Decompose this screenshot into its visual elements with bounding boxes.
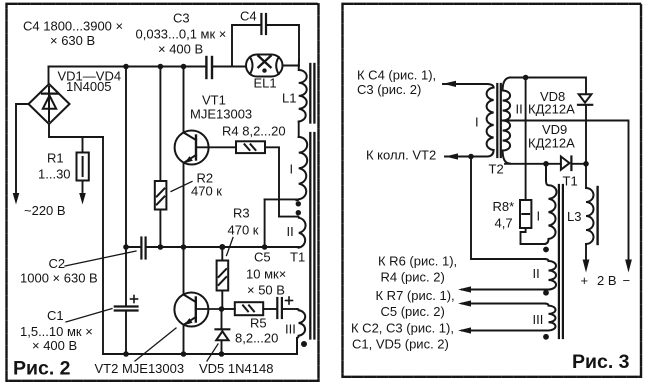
polarity dot T1 II xyxy=(543,290,549,296)
bridge rectifier VD1-VD4 xyxy=(29,84,70,124)
arrow to R7 C5 xyxy=(458,300,471,306)
svg-text:КД212А: КД212А xyxy=(528,136,575,151)
wire C4 loop right side xyxy=(267,25,299,60)
resistor R1 xyxy=(77,153,89,181)
junction dot mid bus x264 xyxy=(262,244,268,250)
svg-text:−: − xyxy=(623,273,631,288)
svg-text:К колл. VT2: К колл. VT2 xyxy=(366,148,436,163)
wire rectifier top xyxy=(510,78,586,94)
svg-text:К С2, С3 (рис. 1),: К С2, С3 (рис. 1), xyxy=(351,321,454,336)
wire top bus right segment xyxy=(213,66,246,68)
wire R2 top lead xyxy=(159,67,161,182)
resistor R4 xyxy=(236,141,265,153)
svg-text:К R7 (рис. 1),: К R7 (рис. 1), xyxy=(376,288,455,303)
svg-text:C2: C2 xyxy=(49,256,66,271)
svg-text:С3 (рис. 2): С3 (рис. 2) xyxy=(357,82,421,97)
junction dot rectifier output xyxy=(583,161,589,167)
diode VD9 xyxy=(561,157,572,171)
transformer T2 secondary upper half II xyxy=(503,78,511,121)
wire vertical bus x126 upper xyxy=(125,67,127,248)
svg-text:C1: C1 xyxy=(47,308,64,323)
wire VD5 top lead xyxy=(221,309,223,330)
svg-text:R5: R5 xyxy=(250,316,267,331)
resistor R5 xyxy=(235,302,263,315)
arrow to коллектор VT2 xyxy=(445,153,458,159)
right panel frame xyxy=(343,4,642,377)
svg-text:VT1: VT1 xyxy=(202,93,226,108)
wire R3 top lead xyxy=(221,247,223,261)
wire VD9 anode xyxy=(505,163,561,165)
svg-text:L1: L1 xyxy=(282,91,296,106)
junction dot top bus x160 xyxy=(158,64,164,70)
LEFT PANEL xyxy=(13,57,299,354)
svg-text:R8*: R8* xyxy=(493,199,515,214)
core L3 xyxy=(596,187,598,244)
wire bottom bus xyxy=(103,353,297,355)
wire R5 to C5 xyxy=(263,308,276,310)
svg-text:R4 (рис. 2): R4 (рис. 2) xyxy=(381,270,445,285)
wire bridge bottom lead xyxy=(49,124,103,137)
svg-text:Т2: Т2 xyxy=(489,162,504,177)
inductor L1 xyxy=(299,60,307,122)
polarity dot T1 I xyxy=(543,247,549,253)
svg-text:MJE13003: MJE13003 xyxy=(190,107,252,122)
transformer T2 secondary lower half xyxy=(503,121,511,164)
svg-text:4,7: 4,7 xyxy=(495,216,513,231)
wire VD5 bottom lead xyxy=(221,341,223,355)
svg-text:К C4 (рис. 1),: К C4 (рис. 1), xyxy=(357,68,436,83)
leader VT2 label xyxy=(135,328,176,361)
junction dot mid bus x126 xyxy=(123,244,129,250)
RIGHT PANEL xyxy=(443,75,632,340)
wire C2 left lead xyxy=(126,246,140,248)
capacitor C4 xyxy=(261,14,266,34)
svg-text:10 мк×: 10 мк× xyxy=(246,267,286,282)
arrow mains right xyxy=(79,193,86,205)
wire C5 to winding III xyxy=(283,308,297,310)
polarity dot winding III xyxy=(301,341,307,347)
core T1 lower segment xyxy=(310,133,314,339)
wire T2 primary bottom xyxy=(445,150,494,157)
svg-text:× 50 В: × 50 В xyxy=(247,283,285,298)
svg-text:III: III xyxy=(285,322,296,337)
wire T2 primary top xyxy=(443,84,494,88)
arrow minus output xyxy=(625,260,632,273)
wire VD8 cathode lead xyxy=(585,105,587,164)
transistor VT1 xyxy=(175,131,236,165)
core T2 xyxy=(497,84,501,157)
plus sign C5 xyxy=(286,297,293,304)
transformer T2 primary winding I xyxy=(487,88,494,151)
arrow to C4 C3 xyxy=(443,81,456,87)
svg-text:2 В: 2 В xyxy=(597,273,617,288)
wire VT1 collector lead xyxy=(183,67,185,133)
svg-text:1,5...10 мк ×: 1,5...10 мк × xyxy=(20,324,93,339)
svg-text:Т1: Т1 xyxy=(290,250,305,265)
wire C2 bus right xyxy=(147,246,299,248)
svg-text:8,2...20: 8,2...20 xyxy=(235,331,278,346)
wire R1 bottom lead xyxy=(82,181,84,193)
transformer T1 winding I right xyxy=(544,164,557,244)
svg-text:C4 1800...3900 ×: C4 1800...3900 × xyxy=(23,19,123,34)
resistor R2 xyxy=(155,181,167,210)
svg-text:R4 8,2...20: R4 8,2...20 xyxy=(222,124,286,139)
junction dot VT2 wire xyxy=(468,154,474,160)
transistor VT2 xyxy=(174,293,221,327)
svg-text:C4: C4 xyxy=(240,9,257,24)
wire bridge top lead xyxy=(48,67,50,85)
junction dot mid bus x222 xyxy=(219,244,225,250)
wire R8 drop xyxy=(525,78,527,201)
junction dot VT2 base xyxy=(219,306,225,312)
resistor R3 xyxy=(217,261,229,291)
svg-text:VD5 1N4148: VD5 1N4148 xyxy=(199,361,273,376)
wire R1 top lead xyxy=(82,137,84,153)
wire R2 bottom lead xyxy=(159,210,161,248)
svg-text:0,033...0,1 мк ×: 0,033...0,1 мк × xyxy=(136,27,227,42)
svg-text:1N4005: 1N4005 xyxy=(66,79,112,94)
junction dot bottom bus x183 xyxy=(181,351,187,357)
wire VT1 emitter lead xyxy=(183,164,185,248)
leader C2 label xyxy=(65,251,136,266)
polarity dot winding II xyxy=(296,210,301,215)
svg-text:EL1: EL1 xyxy=(254,76,277,91)
wire VD9 cathode xyxy=(572,163,586,165)
svg-text:I: I xyxy=(475,115,479,130)
svg-text:C3: C3 xyxy=(173,11,190,26)
leader C1 label xyxy=(66,309,112,323)
plus sign C1 xyxy=(131,296,138,303)
svg-text:~220 В: ~220 В xyxy=(24,203,66,218)
svg-text:II: II xyxy=(533,266,540,281)
junction dot top bus x183 xyxy=(181,64,187,70)
svg-text:L3: L3 xyxy=(567,209,581,224)
junction dot mid bus x183 xyxy=(181,244,187,250)
svg-text:1...30: 1...30 xyxy=(38,167,71,182)
wire VT2 emitter lead xyxy=(183,326,185,355)
svg-text:II: II xyxy=(287,224,294,239)
transformer T1 winding III right xyxy=(462,304,556,331)
wire winding II top feed xyxy=(471,157,545,260)
wire R4 to node xyxy=(265,147,279,216)
wire rectifier output to L3 xyxy=(585,164,587,188)
svg-text:С5 (рис. 2): С5 (рис. 2) xyxy=(381,304,445,319)
svg-text:C5: C5 xyxy=(254,250,271,265)
resistor R8 xyxy=(520,200,531,228)
svg-text:КД212А: КД212А xyxy=(528,102,575,117)
core T1 upper segment xyxy=(310,64,314,123)
junction dot bottom bus x126 xyxy=(123,351,129,357)
wire EL1 right lead xyxy=(283,65,300,67)
wire top bus left segment xyxy=(49,66,206,68)
arrow mains left xyxy=(13,193,20,205)
left panel frame xyxy=(7,4,319,381)
transformer T1 winding III xyxy=(297,309,305,354)
junction dot T1 top xyxy=(543,161,549,167)
svg-text:I: I xyxy=(537,209,541,224)
wire C1 lower lead xyxy=(125,312,127,355)
leader R2 label xyxy=(171,182,192,192)
diode VD5 xyxy=(216,329,230,340)
svg-text:× 400 В: × 400 В xyxy=(32,338,77,353)
svg-text:I: I xyxy=(290,162,294,177)
leader R3 label xyxy=(227,238,234,256)
polarity dot T1 III xyxy=(543,334,549,340)
inductor L3 xyxy=(586,188,594,244)
polarity dot winding I xyxy=(296,201,301,206)
wire R8 bottom to winding I xyxy=(521,228,546,244)
wire node to C5 bus xyxy=(264,199,266,247)
leader VD5 label xyxy=(207,344,218,361)
svg-text:VT2 MJE13003: VT2 MJE13003 xyxy=(95,361,185,376)
lamp EL1 xyxy=(246,55,283,77)
wire L1 to winding I xyxy=(298,122,300,138)
svg-text:Рис. 2: Рис. 2 xyxy=(13,358,71,380)
wire C1 upper lead xyxy=(125,247,127,306)
capacitor C5 xyxy=(277,298,282,318)
capacitor C3 xyxy=(206,57,212,78)
arrow to R6 R4 xyxy=(458,286,471,292)
wire bridge left lead xyxy=(16,104,29,192)
core T1 right panel xyxy=(559,185,563,338)
svg-text:R1: R1 xyxy=(47,151,64,166)
svg-text:III: III xyxy=(533,312,544,327)
arrow to C2 C3 C1 VD5 xyxy=(458,327,471,333)
svg-text:× 630 В: × 630 В xyxy=(50,33,95,48)
wire center tap to minus xyxy=(503,121,629,262)
diode VD8 xyxy=(578,94,592,105)
transformer T1 winding I xyxy=(297,137,308,200)
svg-text:470 к: 470 к xyxy=(228,223,259,238)
transformer T1 winding II xyxy=(298,217,306,248)
svg-text:+: + xyxy=(581,273,589,288)
wire VT2 base node to R5 xyxy=(222,308,235,310)
junction dot mid bus x160 xyxy=(158,244,164,250)
wire winding III top feed xyxy=(462,303,545,305)
svg-text:R3: R3 xyxy=(233,206,250,221)
transformer T1 winding II right xyxy=(462,259,556,290)
wire winding II top xyxy=(279,216,298,218)
svg-text:Рис. 3: Рис. 3 xyxy=(572,351,630,373)
svg-text:К R6 (рис. 1),: К R6 (рис. 1), xyxy=(378,254,457,269)
junction dot R8 tap xyxy=(523,75,529,81)
junction dot top bus x126 xyxy=(123,64,129,70)
svg-text:470 к: 470 к xyxy=(191,184,222,199)
svg-text:II: II xyxy=(516,102,523,117)
capacitor C1 xyxy=(115,307,138,311)
svg-text:Т1: Т1 xyxy=(563,174,578,189)
svg-text:С1, VD5 (рис. 2): С1, VD5 (рис. 2) xyxy=(352,337,449,352)
wire L3 to plus xyxy=(585,244,587,261)
wire winding I bottom xyxy=(265,198,297,200)
capacitor C2 xyxy=(141,238,145,259)
svg-text:1000 × 630 В: 1000 × 630 В xyxy=(20,271,98,286)
arrow plus output xyxy=(583,260,590,273)
wire C4 loop left side xyxy=(232,25,260,67)
svg-text:× 400 В: × 400 В xyxy=(158,42,203,57)
wire R3 bottom lead xyxy=(221,291,223,310)
junction dot bottom bus x222 xyxy=(219,351,225,357)
wire VT2 collector lead xyxy=(183,247,185,295)
wire right vertical to bottom bus xyxy=(102,137,104,354)
